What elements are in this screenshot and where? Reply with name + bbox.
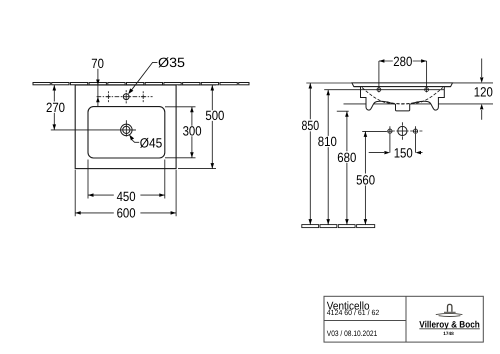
svg-text:850: 850 [302, 118, 320, 133]
svg-text:600: 600 [117, 206, 136, 221]
svg-text:Ø45: Ø45 [140, 136, 163, 151]
svg-text:560: 560 [356, 172, 375, 187]
svg-text:1748: 1748 [443, 331, 454, 336]
svg-text:280: 280 [393, 54, 412, 69]
svg-text:4124 60 / 61 / 62: 4124 60 / 61 / 62 [327, 308, 380, 317]
svg-text:300: 300 [183, 124, 202, 139]
svg-text:Villeroy & Boch: Villeroy & Boch [419, 319, 480, 329]
svg-text:680: 680 [337, 150, 356, 165]
svg-text:810: 810 [318, 134, 337, 149]
svg-text:Ø35: Ø35 [158, 55, 185, 70]
svg-text:70: 70 [91, 56, 104, 71]
svg-text:450: 450 [117, 189, 136, 204]
svg-text:270: 270 [46, 100, 65, 115]
svg-text:120: 120 [474, 84, 493, 99]
svg-text:500: 500 [205, 108, 224, 123]
svg-text:150: 150 [394, 145, 413, 160]
svg-text:V03 / 08.10.2021: V03 / 08.10.2021 [327, 329, 378, 338]
